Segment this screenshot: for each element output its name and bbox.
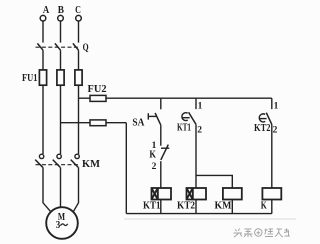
svg-text:A: A — [43, 4, 49, 16]
svg-text:KT2: KT2 — [177, 201, 195, 212]
contactor KM pole 2 blade — [53, 160, 61, 168]
coil KT2 divider — [192, 188, 194, 200]
svg-text:3: 3 — [56, 220, 61, 231]
wire SA branch from top bus — [160, 98, 162, 109]
svg-text:Q: Q — [83, 43, 89, 54]
svg-text:KM: KM — [82, 159, 100, 170]
svg-text:1: 1 — [274, 102, 279, 112]
wire phase B: terminal to switch Q — [60, 21, 62, 42]
svg-text:2: 2 — [197, 125, 202, 135]
fuse FU2 upper — [90, 95, 106, 101]
svg-text:SA: SA — [132, 118, 144, 129]
contactor KM linkage dashed line — [36, 164, 80, 166]
svg-text:KM: KM — [215, 201, 232, 212]
contactor KM pole 1 blade — [35, 160, 43, 168]
fuse FU2 lower — [90, 120, 106, 126]
terminal B circle — [58, 15, 64, 21]
contact KT2 blade — [266, 113, 272, 125]
contact K seat — [161, 147, 169, 149]
switch Q pole 2 blade — [55, 43, 61, 50]
svg-text:2: 2 — [152, 162, 157, 172]
fuse FU1 pole 1 — [39, 70, 46, 85]
contactor KM pole 1 fixed contact circle — [39, 154, 43, 158]
switch SA manual actuator crossbar — [147, 113, 149, 119]
wire coil K to bottom bus — [271, 200, 273, 214]
scan artifact faint line under bottom bus — [124, 218, 296, 220]
contact K blade — [161, 145, 169, 160]
wire phase A: terminal to switch Q — [42, 21, 44, 42]
svg-text:K: K — [261, 201, 268, 212]
coil KT1 divider — [157, 188, 159, 200]
wire control top bus from phase C — [79, 97, 272, 99]
wire phase A: KM to motor — [43, 167, 51, 212]
coil KM body — [223, 188, 242, 200]
wire phase C: terminal to switch Q — [78, 21, 80, 42]
switch Q pole 3 blade — [73, 43, 79, 50]
wire coil KT2 to bottom bus — [195, 200, 197, 214]
svg-text:B: B — [58, 4, 65, 16]
wire control bottom bus — [126, 213, 271, 215]
svg-text:KT1: KT1 — [177, 123, 191, 134]
switch SA blade — [155, 113, 161, 125]
switch SA manual actuator stem — [148, 115, 156, 117]
wire control return branch from phase B — [61, 122, 127, 124]
wire contact KT2 to coil K — [271, 124, 273, 188]
contact KT1 blade — [189, 112, 196, 124]
wire contact K to coil KT1 — [160, 161, 162, 188]
switch Q linkage dashed line — [36, 46, 81, 48]
wire coil KT1 to bottom bus — [160, 200, 162, 214]
coil KT2 (time relay) body — [187, 188, 207, 200]
coil KT2 hatch X — [187, 188, 193, 200]
wire return leg down — [125, 123, 127, 214]
wire phase B: KM to motor — [60, 167, 62, 207]
wire phase A: Q to KM through FU1 — [42, 50, 44, 154]
wire SA to contact K — [160, 125, 162, 146]
terminal A circle — [40, 15, 46, 21]
contact KT2 time-delay arc — [259, 114, 265, 122]
contactor KM pole 2 fixed contact circle — [57, 154, 61, 158]
motor M circle — [46, 207, 78, 239]
wire coil KM to bottom bus — [231, 200, 233, 214]
svg-text:K: K — [149, 149, 156, 160]
coil KT1 hatch X — [152, 188, 158, 200]
wire phase C: KM to motor — [73, 167, 78, 212]
svg-text:KT1: KT1 — [143, 201, 161, 212]
svg-text:C: C — [75, 4, 81, 16]
svg-text:KT2: KT2 — [254, 123, 271, 134]
watermark 头条@煤久科技 (drawn as gray glyph strokes) — [234, 229, 291, 238]
wire KT1-contact branch from top bus — [195, 98, 197, 109]
contactor KM pole 3 blade — [71, 160, 79, 168]
wire contact KT1 down to coil KT2 — [195, 124, 197, 188]
svg-text:FU1: FU1 — [22, 73, 38, 84]
fuse FU1 pole 3 — [75, 70, 82, 85]
wire branch to coil KM — [196, 175, 232, 188]
fuse FU1 pole 2 — [57, 70, 64, 85]
contactor KM pole 3 fixed contact circle — [75, 154, 79, 158]
svg-text:2: 2 — [273, 125, 278, 135]
wire phase C: Q to KM through FU1 — [78, 50, 80, 154]
motor 3-phase tilde — [60, 224, 67, 226]
coil KT1 (time relay) body — [152, 188, 172, 200]
wire phase B: Q to KM through FU1 — [60, 50, 62, 154]
svg-text:FU2: FU2 — [88, 84, 107, 95]
svg-text:1: 1 — [198, 101, 203, 111]
switch Q pole 1 blade — [37, 43, 43, 50]
coil K body — [262, 188, 281, 200]
wire KT2-contact branch (top bus right corner down) — [271, 98, 273, 109]
contact KT1 time-delay arc — [182, 113, 188, 121]
terminal C circle — [76, 15, 82, 21]
